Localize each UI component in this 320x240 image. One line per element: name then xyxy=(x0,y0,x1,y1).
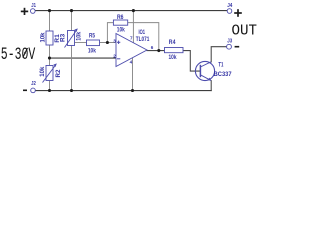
wire bottom rail xyxy=(36,90,212,92)
svg-text:R5: R5 xyxy=(89,33,96,39)
node top rail R1 xyxy=(48,9,51,12)
wire R2 top lead xyxy=(49,58,51,66)
svg-text:J1: J1 xyxy=(31,3,36,9)
plus sign at J4 xyxy=(234,9,242,17)
transistor T1 xyxy=(195,61,214,80)
svg-text:3: 3 xyxy=(113,38,116,43)
resistor R1 xyxy=(46,31,53,45)
wire R6 left leg xyxy=(107,23,113,43)
svg-text:R6: R6 xyxy=(117,15,124,21)
svg-text:10k: 10k xyxy=(40,66,46,77)
label 5-30V xyxy=(1,44,36,65)
wire collector to J3 xyxy=(211,47,226,62)
wire R3 wiper to R5 xyxy=(75,42,87,44)
svg-text:7: 7 xyxy=(130,36,133,41)
wire R3 bottom lead xyxy=(71,46,73,91)
node bottom rail R2 xyxy=(48,89,51,92)
wire R2 bottom lead xyxy=(49,81,51,91)
resistor R4 xyxy=(165,48,184,53)
svg-text:R3: R3 xyxy=(61,33,67,42)
svg-text:R4: R4 xyxy=(169,40,176,46)
svg-text:4: 4 xyxy=(130,60,133,65)
connector J2 xyxy=(31,88,36,93)
svg-text:10k: 10k xyxy=(88,48,97,54)
svg-text:R2: R2 xyxy=(56,69,62,78)
node bottom rail R3 xyxy=(70,89,73,92)
svg-text:OUT: OUT xyxy=(232,23,258,39)
wire op-amp output net xyxy=(147,50,165,52)
resistor R6 xyxy=(113,20,127,25)
connector J4 xyxy=(227,9,232,14)
svg-text:10k: 10k xyxy=(40,32,46,43)
node bottom rail V- xyxy=(131,89,134,92)
wire R5 to non-inverting input xyxy=(100,42,117,44)
node inverting input xyxy=(48,57,51,60)
wire R6 right leg xyxy=(128,23,159,51)
plus sign at J1 xyxy=(21,8,28,15)
resistor R5 xyxy=(87,40,100,46)
svg-text:TL071: TL071 xyxy=(136,37,150,43)
svg-text:10k: 10k xyxy=(76,31,82,41)
wire op-amp V+ pin 7 xyxy=(132,11,134,43)
svg-text:10k: 10k xyxy=(117,28,126,34)
node top rail V+ xyxy=(132,9,135,12)
node output feedback xyxy=(157,49,160,52)
svg-text:10k: 10k xyxy=(169,55,178,61)
slash in zero of 5-30V xyxy=(23,48,28,58)
minus sign at J2 xyxy=(23,89,27,91)
connector J3 xyxy=(227,44,232,49)
node top rail R3 xyxy=(70,9,73,12)
wire R1 top lead xyxy=(49,11,51,31)
svg-text:5-30V: 5-30V xyxy=(1,44,36,65)
wire inverting input net xyxy=(50,57,117,59)
minus sign at J3 xyxy=(235,46,240,48)
op-amp IO1 xyxy=(116,34,147,67)
wire R4 to transistor base xyxy=(183,51,200,72)
svg-text:J3: J3 xyxy=(227,39,232,45)
wire R1 bottom lead xyxy=(49,45,51,58)
wire R3 top lead xyxy=(71,11,73,31)
svg-text:BC337: BC337 xyxy=(214,72,233,78)
svg-text:IO1: IO1 xyxy=(139,30,146,36)
svg-text:J2: J2 xyxy=(31,81,36,87)
wire op-amp V- pin 4 xyxy=(132,58,134,91)
trimmer R3 xyxy=(68,31,75,46)
wire top rail xyxy=(35,10,227,12)
svg-text:6: 6 xyxy=(151,45,154,50)
node non-inverting input xyxy=(106,41,109,44)
wire emitter to bottom rail xyxy=(210,81,212,91)
svg-text:T1: T1 xyxy=(218,63,223,69)
svg-text:2: 2 xyxy=(113,54,116,59)
svg-text:J4: J4 xyxy=(227,3,232,9)
connector J1 xyxy=(31,9,36,14)
trimmer R2 xyxy=(46,66,53,81)
